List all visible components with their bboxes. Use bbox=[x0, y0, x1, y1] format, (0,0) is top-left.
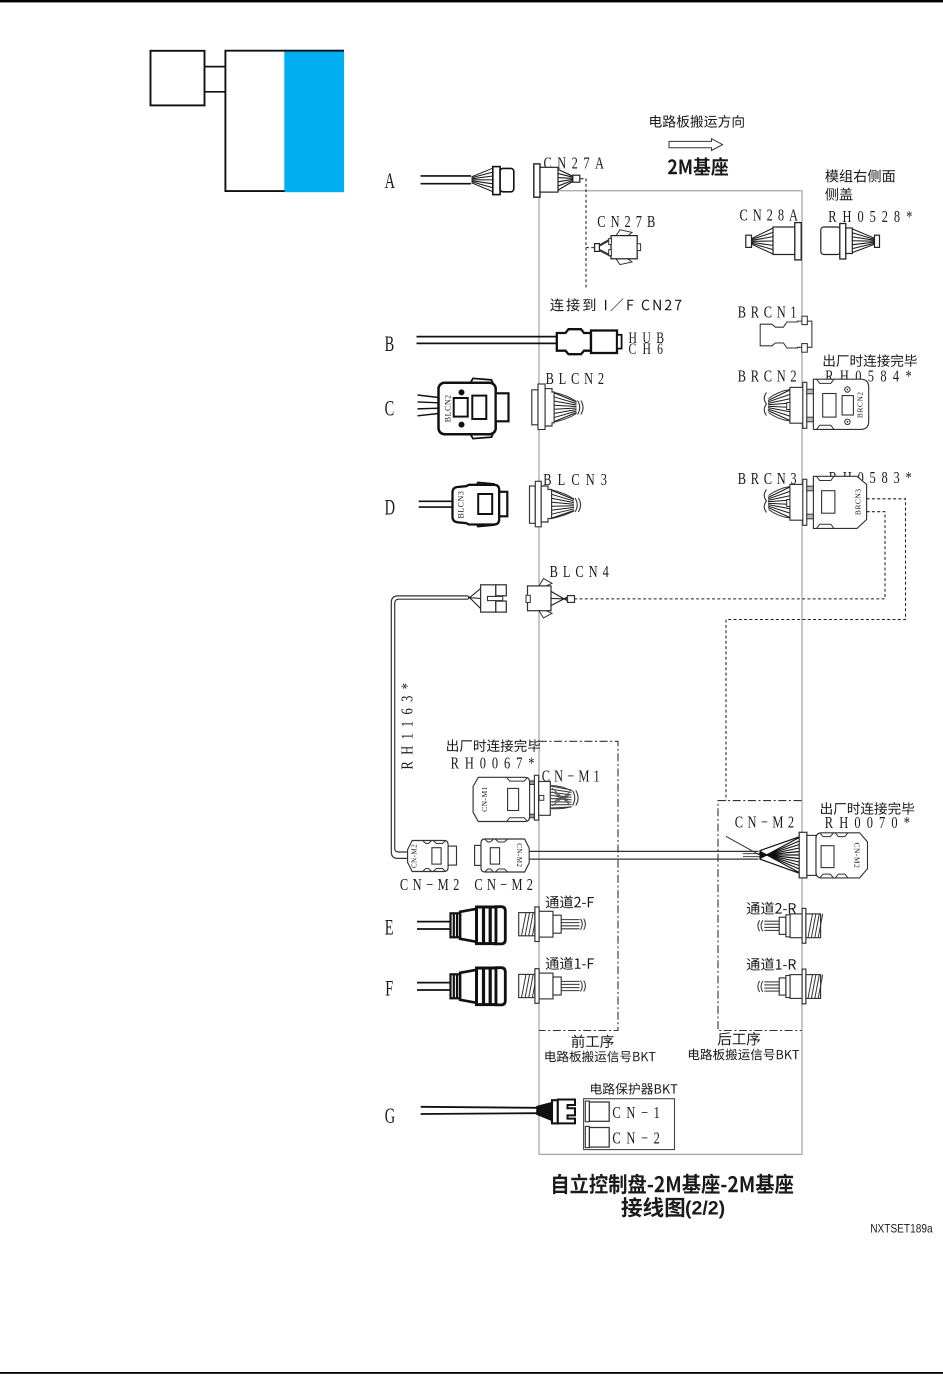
connector 通道1-F wires bbox=[561, 980, 579, 982]
terminal CN-1 square bbox=[585, 1101, 589, 1122]
circuit protector BKT box bbox=[584, 1099, 675, 1150]
cable C plug body bbox=[439, 383, 496, 434]
svg-text:CN-M2: CN-M2 bbox=[515, 843, 523, 867]
cable C wires bbox=[418, 395, 439, 398]
cable B HUB plug body bbox=[557, 329, 591, 354]
connector RH0528 pin bbox=[875, 235, 880, 247]
cable G wire bbox=[421, 1107, 538, 1108]
svg-text:F: F bbox=[385, 977, 393, 1001]
connector BLCN4 plug prong bottom bbox=[496, 601, 507, 612]
connector CN27B right notch bbox=[637, 244, 640, 251]
connector CN-M2 right flange bbox=[799, 832, 807, 878]
connector BRCN2 flange bbox=[803, 382, 807, 428]
connector BLCN2 body bbox=[545, 389, 554, 426]
connector 通道1-R body step2 bbox=[779, 978, 786, 995]
svg-text:RH0067*: RH0067* bbox=[451, 755, 541, 773]
connector CN-M2 mid plug body bbox=[481, 839, 529, 872]
connector BRCN2 inner cavity 2 bbox=[842, 396, 853, 415]
cable D plug body bbox=[453, 485, 500, 525]
connector BLCN4 plug prong top bbox=[496, 585, 507, 596]
title line 2 bbox=[621, 1197, 684, 1217]
cable C plug bottom latch bbox=[470, 434, 493, 439]
cable G plug body bbox=[558, 1100, 575, 1124]
connector CN28A pin bbox=[746, 235, 752, 247]
connector CN27B top wing bbox=[616, 230, 632, 236]
connector CN-M1 socket tab bbox=[539, 795, 544, 800]
connector BRCN2 socket bbox=[790, 387, 803, 423]
direction arrow bbox=[669, 139, 723, 151]
label 通道1-F bbox=[546, 957, 594, 970]
svg-text:BLCN2: BLCN2 bbox=[443, 394, 452, 422]
cable B HUB plug shell bbox=[591, 331, 617, 354]
svg-text:C: C bbox=[385, 397, 395, 421]
dash-dot boundary rear-process BKT bbox=[718, 801, 802, 1031]
cable A plug flange bbox=[493, 167, 500, 195]
svg-text:RH0070*: RH0070* bbox=[825, 814, 916, 832]
connector BLCN4 socket bottom flag bbox=[539, 611, 552, 618]
label 后工序 bbox=[718, 1032, 760, 1046]
logo connector lines bbox=[205, 66, 227, 68]
cable D plug top latch bbox=[475, 483, 496, 488]
connector 通道1-F flange bbox=[535, 969, 539, 1004]
connector CN28A body bbox=[773, 227, 795, 255]
connector BLCN2 back block bbox=[532, 390, 538, 425]
bottom rule bbox=[0, 1372, 943, 1374]
connector BRCN1 top tab bbox=[802, 316, 807, 324]
connector 通道2-R wires bbox=[764, 920, 779, 922]
label 通道2-F bbox=[546, 895, 594, 908]
connector 通道2-F wires bbox=[561, 919, 579, 921]
svg-text:BLCN3: BLCN3 bbox=[456, 491, 465, 519]
top border bar bbox=[0, 0, 943, 2]
connector CN27A body bbox=[540, 167, 558, 192]
connector CN-M1 inner cavity bbox=[508, 788, 519, 810]
connector 通道2-F wire break bbox=[581, 919, 586, 930]
cable E plug cone bbox=[460, 909, 476, 942]
svg-text:CN28A: CN28A bbox=[740, 207, 803, 225]
svg-text:CN-M1: CN-M1 bbox=[480, 786, 489, 812]
connector CN-M2 right plug body RH0070 bbox=[816, 833, 868, 878]
harness RH1163 wire bbox=[391, 596, 468, 859]
connector BRCN2 socket tab bbox=[787, 403, 790, 410]
svg-text:CN-M2: CN-M2 bbox=[853, 842, 862, 868]
connector CN27A pin bbox=[573, 175, 580, 182]
cable E plug cap bbox=[496, 907, 505, 944]
note 出厂时连接完毕 (CN-M1) bbox=[447, 739, 540, 752]
connector CN-M1 bundle break bbox=[573, 791, 579, 806]
connector CN-M2 right wire fan bbox=[760, 837, 800, 851]
svg-text:BRCN2: BRCN2 bbox=[738, 368, 801, 386]
connector 通道1-R body bbox=[790, 975, 803, 999]
connector CN27B bottom wing bbox=[616, 259, 632, 265]
svg-text:RH1163*: RH1163* bbox=[399, 677, 417, 770]
connector BRCN3 plug body RH0583 bbox=[813, 476, 866, 528]
cable C plug cavity 1 bbox=[454, 398, 468, 417]
note 出厂时连接完毕 (CN-M2) bbox=[821, 802, 914, 815]
connector BRCN2 wire bundle break bbox=[764, 393, 766, 416]
connector 通道2-F body step1 bbox=[539, 911, 553, 937]
cable B wire bbox=[417, 336, 558, 338]
connector 通道1-R wire break bbox=[758, 981, 763, 992]
connector BLCN3 bundle break bbox=[575, 498, 581, 512]
svg-text:A: A bbox=[385, 169, 396, 193]
cable E wire bbox=[417, 921, 451, 923]
connector BRCN2 wire bundle bbox=[768, 390, 790, 401]
connector BRCN3 inner cavity bbox=[822, 491, 835, 514]
dash-dot boundary front-process BKT bbox=[539, 741, 618, 1030]
connector CN-M2 left cavity bbox=[432, 848, 441, 864]
connector CN27B left latches bbox=[609, 239, 612, 245]
logo small square bbox=[151, 51, 205, 106]
svg-text:CN−M2: CN−M2 bbox=[400, 876, 464, 894]
connector BRCN3 wire bundle bbox=[768, 487, 790, 498]
svg-text:BRCN1: BRCN1 bbox=[738, 304, 801, 322]
connector 通道1-R flange bbox=[802, 969, 806, 1004]
connector RH0528 body bbox=[821, 227, 841, 255]
cable F plug cap bbox=[496, 968, 505, 1005]
connector BRCN2 inner cavity 1 bbox=[823, 394, 836, 418]
connector CN27B pin bbox=[595, 244, 600, 252]
connector 通道1-R wires bbox=[764, 981, 779, 983]
cable G boot bbox=[537, 1103, 552, 1121]
dashed harness BRCN3 upper run bbox=[726, 499, 906, 801]
label 电路板搬运信号BKT (front) bbox=[545, 1051, 655, 1063]
connector 通道1-F body step1 bbox=[539, 973, 553, 999]
cable E plug ribs bbox=[451, 913, 461, 937]
connector BLCN4 pin bbox=[568, 596, 575, 603]
connector BRCN3 socket bbox=[790, 484, 803, 520]
dashed link CN27A to I/F CN27 bbox=[581, 179, 587, 288]
connector BRCN3 flange bbox=[803, 479, 807, 525]
svg-text:B: B bbox=[385, 332, 395, 356]
svg-text:CH6: CH6 bbox=[629, 342, 670, 359]
cable D plug bottom latch bbox=[475, 522, 496, 527]
connector BRCN2 plug body RH0584 bbox=[813, 379, 868, 429]
cable A plug body bbox=[500, 168, 514, 191]
connector BLCN4 plug fan bbox=[468, 596, 481, 609]
connector 通道1-F wire break bbox=[581, 981, 586, 992]
connector BRCN3 wire bundle break bbox=[764, 490, 766, 513]
connector BLCN2 flange bbox=[538, 384, 545, 430]
connector 通道2-F body step2 bbox=[553, 915, 561, 933]
connector 通道2-R wire break bbox=[758, 920, 763, 931]
connector CN27B wires bbox=[599, 239, 612, 246]
svg-text:CN−M2: CN−M2 bbox=[735, 814, 799, 832]
connector CN-M1 flange bbox=[534, 775, 538, 820]
connector CN27A wire fan bbox=[558, 170, 573, 177]
connector RH0528 flange bbox=[840, 224, 846, 260]
label 通道1-R bbox=[747, 958, 796, 971]
svg-text:CN−1: CN−1 bbox=[612, 1104, 665, 1122]
svg-text:BLCN2: BLCN2 bbox=[546, 370, 609, 388]
logo cyan block bbox=[284, 50, 344, 192]
note 连接到 I/F CN27 bbox=[550, 298, 681, 311]
connector 通道2-R body step1 bbox=[786, 915, 790, 937]
connector 通道2-F coil bbox=[519, 913, 535, 936]
connector BRCN1 bottom tab bbox=[802, 344, 808, 353]
connector BRCN3 socket tab bbox=[787, 500, 790, 507]
connector CN-M2 left plug body bbox=[408, 841, 449, 872]
svg-text:NXTSET189a: NXTSET189a bbox=[870, 1223, 933, 1236]
terminal CN-2 square bbox=[585, 1126, 589, 1147]
connector CN27A flange bbox=[534, 164, 540, 197]
cable A wire fan bbox=[472, 168, 493, 177]
connector RH0528 stub bbox=[846, 228, 853, 254]
label 电路板搬运信号BKT (rear) bbox=[689, 1049, 799, 1061]
cable B HUB plug tab bbox=[617, 335, 622, 349]
header text 2M基座 bbox=[668, 157, 728, 176]
connector RH0528 wire fan bbox=[853, 229, 875, 238]
svg-text:CN−M1: CN−M1 bbox=[542, 768, 604, 786]
connector CN27B body bbox=[611, 236, 637, 259]
cable C plug pin dots bbox=[459, 389, 465, 395]
cable D wire bbox=[419, 500, 453, 502]
connector CN-M1 wire bundle bbox=[551, 786, 572, 790]
dashed harness BRCN3 lower run to BLCN4 bbox=[575, 512, 886, 599]
harness RH0070 wire bbox=[529, 850, 758, 852]
cable A wire bbox=[421, 175, 472, 177]
note 模组右侧面 bbox=[825, 169, 895, 182]
cable D plug cavity bbox=[478, 494, 492, 514]
boundary leader diagonal bbox=[726, 836, 759, 855]
connector BLCN3 wire bundle bbox=[552, 491, 574, 500]
connector 通道2-R body step2 bbox=[779, 917, 786, 934]
connector BRCN2 screw bottom bbox=[845, 419, 850, 424]
svg-text:BRCN3: BRCN3 bbox=[854, 488, 863, 515]
connector 通道2-R coil bbox=[806, 914, 821, 938]
connector BLCN2 wire bundle bbox=[555, 393, 577, 402]
connector BLCN4 socket body bbox=[528, 586, 552, 611]
connector 通道2-F flange bbox=[535, 907, 539, 942]
connector 通道2-R body bbox=[790, 914, 803, 938]
note 侧盖 bbox=[825, 188, 852, 201]
connector BLCN4 socket left notch bbox=[526, 595, 530, 602]
svg-text:CN27B: CN27B bbox=[597, 213, 660, 231]
connector CN-M1 socket bbox=[539, 782, 551, 816]
svg-text:CN-M2: CN-M2 bbox=[411, 844, 419, 868]
connector CN-M1 coupling bars bbox=[530, 781, 535, 785]
connector BLCN4 socket fan bbox=[551, 592, 567, 601]
title line 1 bbox=[553, 1174, 793, 1195]
header text 电路板搬运方向 bbox=[650, 115, 744, 128]
svg-text:BLCN4: BLCN4 bbox=[550, 563, 614, 581]
cable F wire bbox=[417, 982, 451, 984]
svg-text:G: G bbox=[385, 1104, 395, 1128]
connector 通道1-F coil bbox=[519, 974, 535, 997]
svg-text:BRCN2: BRCN2 bbox=[856, 391, 865, 418]
connector 通道1-R body step1 bbox=[786, 976, 790, 998]
connector BLCN3 back block bbox=[530, 486, 536, 523]
svg-text:E: E bbox=[385, 916, 394, 940]
svg-text:CN−M2: CN−M2 bbox=[474, 876, 537, 894]
connector CN-M2 right socket bbox=[807, 835, 816, 875]
cable E plug barrel bbox=[477, 907, 497, 944]
cable G plug collar bbox=[552, 1100, 558, 1123]
cable D plug nose bbox=[499, 492, 507, 517]
svg-text:BLCN3: BLCN3 bbox=[543, 471, 613, 489]
connector CN28A flange bbox=[795, 223, 801, 260]
connector BRCN2 coupling bars bbox=[807, 389, 814, 394]
connector BLCN3 body bbox=[541, 486, 551, 522]
label 前工序 bbox=[572, 1035, 614, 1049]
svg-text:(2/2): (2/2) bbox=[685, 1198, 725, 1220]
note 出厂时连接完毕 (BRCN2) bbox=[824, 354, 917, 367]
connector CN-M2 mid nose bbox=[475, 845, 481, 865]
main 2M base enclosure box bbox=[539, 191, 802, 1155]
connector BRCN2 screw top bbox=[845, 387, 850, 392]
cable C plug cavity 2 bbox=[472, 396, 486, 419]
cable F plug cone bbox=[460, 970, 476, 1003]
connector BLCN4 socket top flag bbox=[539, 579, 552, 586]
connector BRCN3 coupling bars bbox=[807, 486, 814, 491]
connector CN28A wire fan bbox=[752, 228, 773, 239]
connector BLCN4 plug latch bbox=[488, 596, 503, 600]
label 电路保护器BKT bbox=[591, 1083, 677, 1095]
cable F plug ribs bbox=[451, 974, 461, 998]
connector CN-M1 plug body RH0067 bbox=[473, 777, 529, 821]
connector BLCN2 bundle break bbox=[578, 401, 584, 415]
cable C plug top latch bbox=[470, 378, 493, 383]
connector 通道1-F body step2 bbox=[553, 977, 561, 995]
connector BLCN4 plug body bbox=[481, 585, 496, 612]
connector 通道1-R coil bbox=[806, 975, 821, 999]
cable C plug nose bbox=[496, 393, 509, 421]
cable F plug barrel bbox=[477, 968, 497, 1005]
connector CN-M2 left nose bbox=[448, 846, 456, 865]
connector CN-M2 right cavity bbox=[821, 846, 834, 868]
label 通道2-R bbox=[747, 902, 796, 915]
connector BRCN1 plug bbox=[760, 321, 812, 348]
logo large rectangle outline bbox=[225, 51, 344, 191]
svg-text:CN−2: CN−2 bbox=[612, 1130, 665, 1148]
connector BLCN3 flange bbox=[535, 481, 541, 527]
connector CN-M2 mid cavity bbox=[490, 848, 499, 864]
svg-text:D: D bbox=[385, 496, 395, 520]
connector 通道2-R flange bbox=[802, 908, 806, 943]
